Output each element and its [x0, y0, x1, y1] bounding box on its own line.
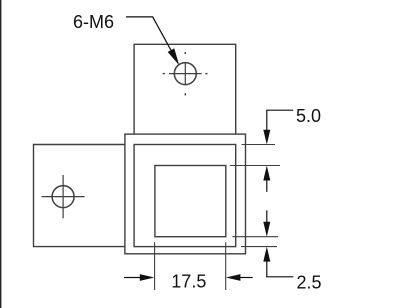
top hole horizontal centerline: [169, 73, 202, 75]
dimension 17.5 left arrow tail: [124, 277, 141, 279]
top hole vertical centerline: [184, 62, 186, 85]
extension line: bore right edge (17.5): [225, 242, 227, 290]
left hole horizontal centerline: [42, 196, 85, 198]
inner bore square: [155, 166, 226, 237]
leader arrowhead 6-M6: [168, 49, 179, 65]
dimension 17.5 right arrowhead: [226, 274, 241, 281]
dimension 5.0 down arrowhead: [263, 130, 270, 145]
extension line: bore top edge: [230, 165, 280, 167]
leader line 6-M6: [126, 17, 171, 50]
top hole centerline dot right: [205, 73, 207, 75]
extension line: middle square top edge: [242, 144, 275, 146]
dimension 2.5 up arrowhead: [263, 247, 270, 262]
down arrowhead at bore bottom: [263, 222, 270, 237]
top hole centerline dot bottom: [184, 93, 186, 95]
left tab outline: [34, 145, 125, 247]
left hole vertical centerline: [62, 175, 64, 218]
outer square (body): [125, 134, 246, 254]
top hole circle: [174, 63, 196, 85]
dimension 17.5 right arrow tail: [240, 277, 253, 279]
extension line: middle square bottom edge: [241, 246, 277, 248]
svg-text:6-M6: 6-M6: [73, 12, 114, 32]
top hole centerline dot top: [184, 52, 186, 54]
dimension 2.5 leader: [267, 261, 294, 277]
svg-text:2.5: 2.5: [297, 273, 322, 293]
dimension 5.0 leader: [267, 110, 293, 130]
tail above bore-bottom arrow: [266, 210, 268, 222]
svg-text:17.5: 17.5: [171, 271, 206, 291]
up arrowhead at bore top: [263, 166, 270, 181]
left hole circle: [52, 186, 74, 208]
top hole centerline dot left: [163, 73, 165, 75]
svg-text:5.0: 5.0: [296, 106, 321, 126]
extension line: bore left edge (17.5): [154, 242, 156, 290]
dimension tail between 5.0 and 2.5: [266, 180, 268, 192]
dimension 17.5 left arrowhead: [140, 274, 155, 281]
middle square (tube outline): [134, 145, 236, 247]
left page border line: [0, 0, 2, 308]
extension line: bore bottom edge: [232, 236, 278, 238]
top tab outline: [134, 44, 236, 134]
